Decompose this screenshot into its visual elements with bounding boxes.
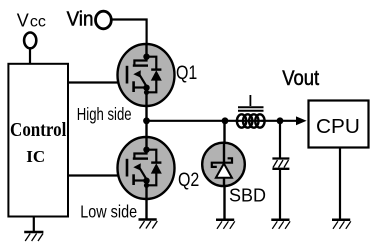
svg-text:CPU: CPU	[316, 116, 360, 138]
node switch junction dot	[143, 117, 150, 124]
arrow into CPU	[296, 116, 307, 125]
ground under SBD	[216, 220, 235, 229]
svg-text:Q2: Q2	[178, 168, 199, 190]
transistor Q1 (high-side MOSFET)	[118, 44, 175, 106]
wire Control IC to ground	[33, 217, 35, 233]
CPU box	[309, 101, 369, 148]
wire Vcc to Control IC	[29, 48, 31, 64]
svg-text:Q1: Q1	[176, 61, 197, 83]
svg-text:High side: High side	[77, 105, 132, 124]
svg-text:Low side: Low side	[80, 202, 137, 222]
inductor L1 coil	[237, 114, 265, 127]
wire inductor to output node	[262, 120, 297, 122]
wire CPU to ground	[339, 148, 341, 220]
wire node to SBD cathode	[223, 121, 225, 144]
svg-text:Control: Control	[10, 119, 66, 142]
inductor L1 core lines	[238, 106, 264, 108]
svg-text:SBD: SBD	[229, 186, 266, 206]
inductor L1 core tap tick	[249, 95, 251, 106]
wire switch node to inductor	[147, 120, 240, 122]
diode SBD (Schottky barrier diode)	[202, 143, 245, 186]
wire output node to capacitor	[279, 121, 281, 158]
capacitor C1 output	[272, 159, 289, 169]
wire Q2 source to ground	[145, 199, 147, 220]
wire Vin to Q1 drain	[111, 20, 146, 45]
svg-text:Vin: Vin	[67, 8, 94, 31]
node SBD junction dot	[222, 117, 229, 124]
ground under capacitor	[271, 220, 290, 229]
terminal Vin circle	[96, 11, 112, 29]
svg-text:IC: IC	[26, 147, 45, 166]
wire Control IC to Q2 gate	[68, 174, 127, 176]
ground under Control IC	[24, 232, 43, 241]
svg-text:Vcc: Vcc	[17, 11, 46, 31]
node output junction dot	[277, 117, 284, 124]
wire Control IC to Q1 gate	[68, 81, 127, 83]
wire capacitor to ground	[279, 170, 281, 220]
svg-text:Vout: Vout	[282, 67, 319, 90]
ground under CPU	[332, 220, 351, 229]
wire SBD anode to ground	[223, 186, 225, 220]
terminal Vcc circle	[24, 33, 36, 49]
ground under Q2	[139, 220, 158, 229]
Control IC U1 box	[8, 64, 68, 217]
wire Q1 source to Q2 drain	[145, 106, 147, 137]
transistor Q2 (low-side MOSFET)	[118, 137, 175, 199]
